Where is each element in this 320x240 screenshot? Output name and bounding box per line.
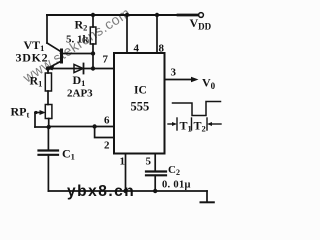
wire bottom rail [48, 190, 207, 192]
svg-text:2: 2 [104, 140, 110, 152]
wire pin8 [156, 15, 158, 53]
svg-text:ybx8.cn: ybx8.cn [67, 183, 135, 200]
junction node pin1 rail [123, 189, 127, 193]
svg-text:4: 4 [134, 43, 140, 55]
svg-text:5: 5 [146, 156, 152, 168]
svg-text:7: 7 [103, 54, 109, 66]
junction node pin4 top [125, 13, 129, 17]
junction node emitter R1 [46, 66, 50, 70]
arrowhead pin3 [191, 77, 199, 83]
capacitor C1 [47, 127, 49, 151]
wire top rail VDD [47, 14, 198, 16]
svg-text:2AP3: 2AP3 [67, 88, 93, 100]
terminal VDD [199, 13, 204, 18]
wire pin1 [125, 154, 127, 192]
wire pin3 output [165, 79, 194, 81]
wire pin2 [95, 127, 114, 138]
wire pin7 vertical [92, 54, 94, 69]
junction node pin6 split [92, 124, 96, 128]
svg-text:IC: IC [134, 85, 147, 97]
junction node C2 rail [153, 189, 157, 193]
wire pin5 [154, 154, 156, 172]
potentiometer RP1 [45, 105, 52, 119]
junction node D1 cathode pin7 [91, 66, 95, 70]
resistor R1 [47, 69, 49, 74]
IC 555 box U1 [114, 53, 165, 154]
junction node RP1 wiper [34, 111, 37, 114]
svg-text:8: 8 [159, 43, 165, 55]
arrowhead dim right [207, 122, 212, 126]
junction node RP1 bottom [47, 125, 51, 129]
capacitor C2 [146, 170, 166, 172]
diode D1 [48, 68, 93, 70]
ground [206, 191, 208, 202]
svg-text:3: 3 [171, 67, 177, 79]
junction node base/R2 [91, 51, 95, 55]
arrowhead dim left [172, 122, 177, 126]
svg-text:5. 1k: 5. 1k [66, 34, 90, 46]
junction node R2 top [91, 13, 95, 17]
wire VT1 collector up [46, 15, 48, 43]
wire pin6 [49, 126, 114, 128]
svg-text:555: 555 [131, 100, 150, 114]
svg-text:0. 01μ: 0. 01μ [162, 180, 191, 191]
wire pin4 [126, 15, 128, 53]
arrowhead RP1 wiper [40, 110, 46, 115]
svg-text:1: 1 [120, 156, 126, 168]
svg-text:3DK2: 3DK2 [16, 51, 49, 65]
dimension bars T1 T2 [176, 118, 178, 130]
arrowhead emitter VT1 [48, 64, 55, 71]
resistor R2 [92, 15, 94, 27]
svg-text:6: 6 [104, 115, 110, 127]
waveform square wave [173, 102, 221, 116]
transistor VT1 [47, 43, 62, 52]
junction node pin8 top [155, 13, 159, 17]
wire pin7 to IC [93, 68, 114, 70]
